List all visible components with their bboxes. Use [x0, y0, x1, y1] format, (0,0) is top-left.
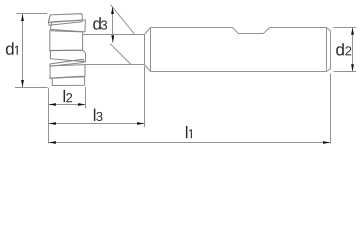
neck top line: [83, 34, 145, 36]
d2 extension line top: [334, 27, 357, 29]
d2 arrow down: [351, 64, 354, 71]
label l1: [186, 126, 187, 138]
d2 arrow up: [351, 28, 354, 35]
tooth grind line upper: [49, 22, 83, 26]
l3 arrow right: [137, 122, 144, 125]
label d3: [93, 17, 101, 29]
l3 right extension line: [144, 66, 146, 127]
l2 right extension line: [85, 87, 87, 108]
cutter head tooth T1: [49, 14, 83, 23]
l1 right extension line: [330, 74, 332, 144]
technical drawing: T-slot cutter with dimensions d1 d2 d3 l1 l2 l3: [0, 0, 362, 156]
cutter head tooth T3: [50, 31, 83, 51]
shank chamfer edge vertical: [326, 28, 328, 72]
d1 extension line bottom: [15, 87, 48, 89]
l1 arrow left: [49, 141, 56, 144]
d1 arrow down: [21, 80, 24, 87]
cutter head tooth T7: [52, 77, 84, 86]
tooth T1 left facet: [48, 15, 50, 26]
shank bottom: [151, 71, 327, 73]
label l3: [94, 109, 95, 121]
d1 arrow up: [21, 14, 24, 21]
shank start face: [150, 28, 152, 72]
neck bottom line: [86, 64, 145, 66]
d3 oblique extension line B: [110, 44, 131, 65]
d3 arrow down: [111, 35, 114, 43]
cone start vertical: [144, 35, 146, 65]
left extension line shared l1 l2 l3: [48, 88, 50, 143]
label l2: [64, 90, 65, 102]
l3 arrow left: [49, 122, 56, 125]
label d1: [6, 42, 14, 54]
taper bottom: [145, 65, 151, 72]
l2 arrow left: [49, 103, 56, 106]
cutter head tooth T5: [50, 59, 83, 66]
taper top: [145, 28, 151, 35]
shank top with weldon notch: [151, 28, 327, 34]
d3 dimension line vertical: [112, 7, 114, 35]
l1 arrow right: [323, 141, 330, 144]
d2 dimension line: [352, 28, 354, 72]
l2 arrow right: [78, 103, 85, 106]
cutter head tooth T4: [51, 50, 86, 62]
shank end chamfer + end face: [327, 28, 331, 72]
d1 extension line top: [17, 13, 48, 15]
l3 dimension line: [49, 123, 145, 125]
d3 oblique extension line A: [110, 5, 134, 35]
d3 arrow up: [111, 7, 114, 14]
l1 dimension line: [49, 142, 331, 144]
d2 extension line bottom: [334, 71, 357, 73]
cutter head tooth T6: [50, 65, 85, 79]
tooth T7b lower-left slant: [49, 76, 81, 78]
cutter head tooth T2: [50, 20, 85, 32]
label d2: [336, 43, 344, 55]
l2 dimension line: [49, 104, 86, 106]
d1 dimension line: [22, 14, 24, 88]
